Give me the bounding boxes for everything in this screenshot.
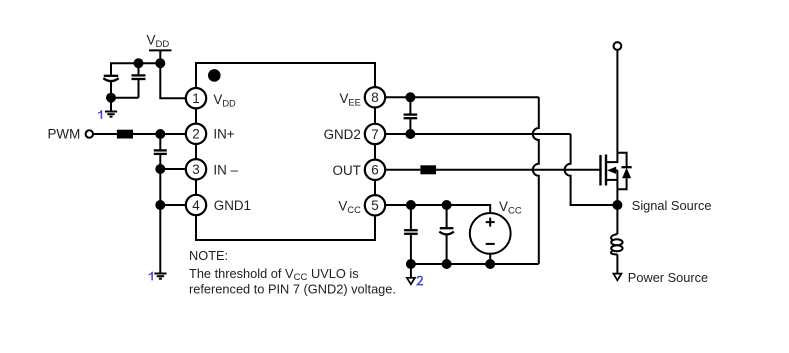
junction: C5 bottom xyxy=(407,260,415,268)
junction: C5 top xyxy=(407,201,415,209)
capacitor C2 (VDD bypass) xyxy=(132,63,146,97)
wire: GND1 rail down to ground xyxy=(159,205,161,274)
junction: C1 bottom / ground drop xyxy=(107,94,115,102)
junction: C4 top on VEE line xyxy=(406,93,414,101)
svg-text:7: 7 xyxy=(371,127,378,142)
wire: inductor to power arrow xyxy=(616,254,618,273)
resistor R2 (gate) xyxy=(420,165,436,174)
svg-text:NOTE:: NOTE: xyxy=(189,248,228,263)
svg-text:8: 8 xyxy=(371,90,378,105)
ground (GND1, bottom-left) xyxy=(154,274,166,279)
node label 2 (blue) xyxy=(417,276,423,284)
resistor R1 (PWM input) xyxy=(117,130,133,139)
junction: VDD rail meets supply drop xyxy=(156,59,164,67)
capacitor C4 (VEE-GND2) xyxy=(404,97,418,134)
wire: bypass rail top (VDD net) xyxy=(111,63,160,76)
wire: drain terminal down xyxy=(616,50,618,153)
svg-text:5: 5 xyxy=(371,198,378,213)
pin 7 xyxy=(365,124,385,144)
body diode D1 xyxy=(617,167,631,189)
svg-text:PWM: PWM xyxy=(48,127,81,142)
wire: resistor to pin 2 (IN+) xyxy=(133,133,196,135)
wire: VEE vertical with hops over GND2 and OUT xyxy=(533,97,539,264)
junction: C6 top xyxy=(443,201,451,209)
arrow marker power source xyxy=(613,274,621,281)
junction: VCC source bottom xyxy=(486,260,494,268)
supply symbol VDD (top-left) xyxy=(149,50,172,63)
inductor L1 xyxy=(611,234,623,254)
wire: left rail IN- to GND1 xyxy=(159,169,161,205)
note text xyxy=(189,248,396,297)
pin 5 xyxy=(365,195,385,215)
junction: signal source node xyxy=(613,201,621,209)
pin 1 indicator dot xyxy=(208,69,221,82)
pin 3 xyxy=(186,159,206,179)
transistor Q1 channel bar xyxy=(605,155,607,186)
svg-text:Power Source: Power Source xyxy=(628,270,708,285)
capacitor C3 (input filter) xyxy=(154,134,167,169)
terminal PWM input xyxy=(86,130,93,137)
ground (GND1, top-left) xyxy=(105,98,117,117)
wire: pin 8 (VEE) to right vertical xyxy=(375,96,539,98)
svg-text:1: 1 xyxy=(192,91,199,106)
wire: MOSFET source down to signal node xyxy=(616,170,618,234)
wire: pin 7 (GND2) to right xyxy=(375,133,571,135)
svg-text:The threshold of VCC UVLO is: The threshold of VCC UVLO is xyxy=(189,266,359,283)
capacitor C1 (polarized, VDD bypass) xyxy=(103,76,118,98)
svg-text:3: 3 xyxy=(192,162,199,177)
voltage source VCC xyxy=(470,213,511,254)
wire: drain to MOSFET drain stub xyxy=(606,153,617,162)
wire: stub to node-2 arrow xyxy=(410,264,412,278)
wire: gate resistor to MOSFET gate xyxy=(436,169,600,171)
arrow marker node 2 xyxy=(407,278,415,285)
pin 6 xyxy=(365,160,385,180)
wire: drain branch to body diode cathode xyxy=(617,153,626,167)
svg-text:Signal Source: Signal Source xyxy=(632,198,712,213)
svg-text:GND1: GND1 xyxy=(214,198,251,213)
wire: bottom negative rail xyxy=(411,263,539,265)
terminal: drain (top right) xyxy=(614,42,622,50)
capacitor C6 (polarized, VCC bulk) xyxy=(439,205,454,264)
svg-text:OUT: OUT xyxy=(333,163,361,178)
junction: cap C2 top on VDD rail xyxy=(135,59,143,67)
svg-text:GND2: GND2 xyxy=(324,127,361,142)
junction: IN+ node / C3 top xyxy=(156,130,164,138)
wire: pin 6 (OUT) to gate resistor xyxy=(375,169,420,171)
transistor Q1 (N-MOSFET) gate bar xyxy=(599,155,601,186)
capacitor C5 (VCC bypass) xyxy=(404,205,418,264)
pin 8 xyxy=(365,87,385,107)
IC body U1 xyxy=(196,63,375,240)
wire: to pin 3 (IN-) xyxy=(160,168,196,170)
wire: VDD drop to pin 1 xyxy=(160,63,196,98)
junction: C6 bottom xyxy=(443,260,451,268)
svg-text:2: 2 xyxy=(192,127,199,142)
junction: IN- node xyxy=(156,165,164,173)
svg-text:6: 6 xyxy=(371,163,378,178)
wire: to pin 4 (GND1) xyxy=(160,204,196,206)
pin 2 xyxy=(186,124,206,144)
pin 4 xyxy=(186,195,206,215)
transistor Q1 source arrow (body stub) xyxy=(607,167,617,174)
wire: VCC source bottom to rail xyxy=(489,254,491,264)
svg-text:IN+: IN+ xyxy=(213,127,234,142)
wire: C1/C2 bottom rail xyxy=(111,97,139,99)
junction: GND1 node xyxy=(156,201,164,209)
svg-text:4: 4 xyxy=(192,198,200,213)
transistor Q1 source stub xyxy=(606,179,617,181)
pin 1 xyxy=(186,88,206,108)
svg-text:IN –: IN – xyxy=(213,163,238,178)
node label 1 (blue, top ground) xyxy=(98,110,102,119)
wire: pin 5 (VCC) to source + xyxy=(375,205,490,213)
wire: PWM terminal to resistor xyxy=(93,133,117,135)
svg-text:referenced to PIN 7 (GND2) vol: referenced to PIN 7 (GND2) voltage. xyxy=(189,282,396,297)
wire: GND2 vertical with hop over OUT, to MOSFET source xyxy=(565,134,618,205)
node label 1 (blue, bottom ground) xyxy=(149,272,153,281)
junction: C4 bottom on GND2 line xyxy=(406,130,414,138)
